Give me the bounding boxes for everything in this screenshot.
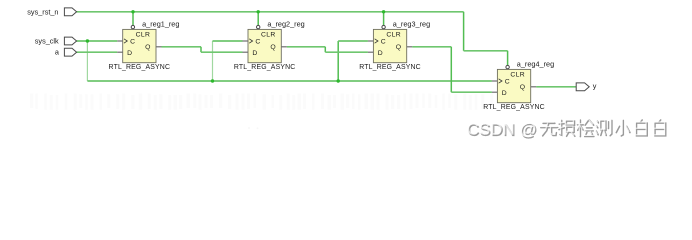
junction dot sys_clk / U2 (211, 79, 214, 82)
junction dot sys_rst_n / U1 (131, 10, 134, 13)
svg-text:CLR: CLR (136, 32, 151, 39)
net sys_clk : vertical drop to clock rail (86, 41, 88, 81)
net U1.Q to U2.D (162, 46, 202, 48)
net U2.Q to U3.D (287, 46, 326, 48)
svg-text:RTL_REG_ASYNC: RTL_REG_ASYNC (483, 104, 545, 111)
net U3.Q to U4.D (412, 46, 451, 48)
svg-text:D: D (502, 90, 507, 97)
net sys_clk : riser to U2 C (212, 41, 214, 81)
svg-text:a_reg4_reg: a_reg4_reg (517, 59, 554, 68)
junction dot sys_clk / U3 (337, 79, 340, 82)
net sys_rst_n : horizontal trunk (77, 11, 464, 13)
net sys_clk : clock rail to U4 C (87, 80, 492, 82)
watermark CSDN @wusunjiance-xiaobaibai (468, 120, 666, 140)
svg-text:y: y (593, 81, 597, 90)
net sys_rst_n : drop to U2 CLR (257, 12, 259, 26)
input port a (64, 48, 76, 56)
svg-text:Q: Q (270, 44, 275, 51)
svg-text:CLR: CLR (261, 32, 276, 39)
svg-text:RTL_REG_ASYNC: RTL_REG_ASYNC (109, 64, 171, 71)
svg-text:Q: Q (396, 44, 401, 51)
svg-text:CLR: CLR (386, 32, 401, 39)
register a_reg1_reg (RTL_REG_ASYNC flip-flop U1) (117, 25, 161, 62)
junction dot sys_rst_n / U2 (257, 10, 260, 13)
svg-text:a_reg2_reg: a_reg2_reg (267, 19, 304, 28)
svg-text:D: D (127, 50, 132, 57)
svg-text:RTL_REG_ASYNC: RTL_REG_ASYNC (234, 64, 296, 71)
input port sys_clk (64, 37, 76, 45)
svg-text:RTL_REG_ASYNC: RTL_REG_ASYNC (359, 64, 421, 71)
faint dots (248, 127, 250, 129)
svg-text:C: C (255, 38, 260, 45)
output port y (576, 83, 589, 91)
net sys_rst_n : drop to U3 CLR (383, 12, 385, 26)
svg-text:Q: Q (145, 44, 150, 51)
svg-text:sys_rst_n: sys_rst_n (27, 7, 58, 16)
net U4.Q to y (536, 86, 576, 88)
junction dot sys_clk / U1 (86, 39, 89, 42)
junction dot sys_rst_n / U3 (382, 10, 385, 13)
svg-text:CSDN @: CSDN @ (466, 120, 536, 139)
net sys_rst_n : drop to U1 CLR (132, 12, 134, 26)
svg-text:sys_clk: sys_clk (35, 36, 59, 45)
register a_reg3_reg (RTL_REG_ASYNC flip-flop U3) (368, 25, 412, 62)
net sys_rst_n : branch to U4 CLR (463, 12, 465, 51)
net sys_clk : port to U1 C (77, 40, 118, 42)
svg-text:C: C (130, 38, 135, 45)
svg-text:C: C (505, 78, 510, 85)
input port sys_rst_n (64, 8, 76, 16)
register a_reg4_reg (RTL_REG_ASYNC flip-flop U4) (492, 65, 536, 102)
net a : port to U1 D (77, 51, 118, 53)
svg-text:a_reg3_reg: a_reg3_reg (393, 19, 430, 28)
svg-text:C: C (381, 38, 386, 45)
svg-text:CLR: CLR (510, 72, 525, 79)
register a_reg2_reg (RTL_REG_ASYNC flip-flop U2) (243, 25, 287, 62)
faint tiled watermark band (30, 94, 33, 109)
svg-text:D: D (252, 50, 257, 57)
svg-text:D: D (378, 50, 383, 57)
svg-text:Q: Q (520, 84, 525, 91)
svg-text:a_reg1_reg: a_reg1_reg (142, 19, 179, 28)
net sys_clk : riser to U3 C (337, 41, 339, 81)
